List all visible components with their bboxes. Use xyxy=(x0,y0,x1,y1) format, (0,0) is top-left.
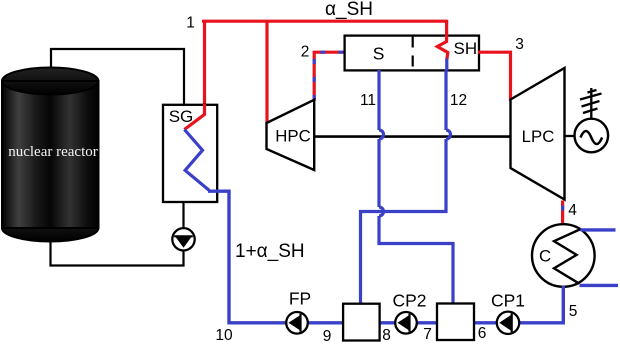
SH coil drain blue start xyxy=(445,59,448,71)
svg-text:11: 11 xyxy=(360,92,376,109)
svg-text:4: 4 xyxy=(568,202,577,219)
wire SG to primary pump xyxy=(182,202,184,229)
svg-text:α_SH: α_SH xyxy=(325,0,373,20)
node 4 wire LPC exhaust to condenser xyxy=(561,201,564,226)
wire main steam header alpha_SH xyxy=(202,20,448,23)
svg-text:12: 12 xyxy=(450,92,467,109)
svg-text:SG: SG xyxy=(169,107,194,126)
generator G xyxy=(565,119,609,153)
SG coil red section xyxy=(184,104,204,130)
wire cooling water inlet xyxy=(581,228,616,231)
svg-text:SH: SH xyxy=(453,39,477,58)
svg-text:LPC: LPC xyxy=(522,127,555,146)
nuclear reactor vessel xyxy=(2,68,99,242)
svg-text:9: 9 xyxy=(323,328,332,345)
shaft HPC-LPC xyxy=(314,135,510,138)
svg-text:FP: FP xyxy=(289,289,311,309)
wire steam branch to HPC inlet xyxy=(265,21,268,124)
drain line 11 separator to FWH1 xyxy=(379,70,453,305)
wire primary hot leg reactor to SG xyxy=(51,49,184,105)
wire cooling water outlet xyxy=(580,284,619,287)
svg-text:2: 2 xyxy=(301,44,310,61)
svg-text:C: C xyxy=(539,247,551,266)
wire SG outlet to node 10 and feed line xyxy=(208,191,287,323)
svg-text:3: 3 xyxy=(515,36,524,53)
svg-text:6: 6 xyxy=(478,325,487,342)
drain line 12 SH coil to FWH2 xyxy=(361,70,451,305)
SG coil blue section xyxy=(184,130,209,191)
svg-text:CP2: CP2 xyxy=(392,291,426,311)
node 3 wire SH outlet to LPC inlet xyxy=(478,52,511,101)
steam generator SG xyxy=(163,105,217,202)
feedwater heater FWH2 xyxy=(343,304,380,341)
wire FWH2 to FP node 9 xyxy=(308,321,345,324)
wire steam drop into SH coil xyxy=(445,21,448,36)
grid connection symbol above generator xyxy=(580,88,602,119)
feedwater heater FWH1 xyxy=(437,304,474,341)
svg-text:7: 7 xyxy=(423,326,432,343)
wire FWH1 to CP2 node 7 xyxy=(417,321,438,324)
svg-text:1: 1 xyxy=(186,15,195,32)
wire primary cold leg reactor to pump xyxy=(51,239,184,266)
svg-text:S: S xyxy=(373,43,385,63)
svg-text:CP1: CP1 xyxy=(491,291,525,311)
LPC turbine xyxy=(511,68,565,200)
svg-text:HPC: HPC xyxy=(275,127,310,146)
wire CP2 to FWH2 node 8 xyxy=(379,321,396,324)
primary pump P0 xyxy=(172,228,194,250)
separator and superheater box S SH xyxy=(345,36,479,71)
svg-text:nuclear reactor: nuclear reactor xyxy=(8,144,98,160)
svg-text:10: 10 xyxy=(215,327,233,344)
node 1 red riser SG to header xyxy=(203,21,206,105)
svg-text:8: 8 xyxy=(382,327,391,344)
node 2 wire HPC exhaust to separator xyxy=(314,52,346,101)
pump FP xyxy=(286,312,308,334)
svg-text:5: 5 xyxy=(569,303,578,320)
svg-text:1+α_SH: 1+α_SH xyxy=(235,241,305,262)
HPC turbine xyxy=(267,100,315,170)
SH heating coil red xyxy=(437,35,448,61)
pump CP1 xyxy=(497,312,519,334)
wire CP1 to FWH1 node 6 xyxy=(474,321,497,324)
node 5 wire condenser to CP1 xyxy=(520,286,564,323)
condenser C xyxy=(532,224,595,287)
pump CP2 xyxy=(395,312,417,334)
